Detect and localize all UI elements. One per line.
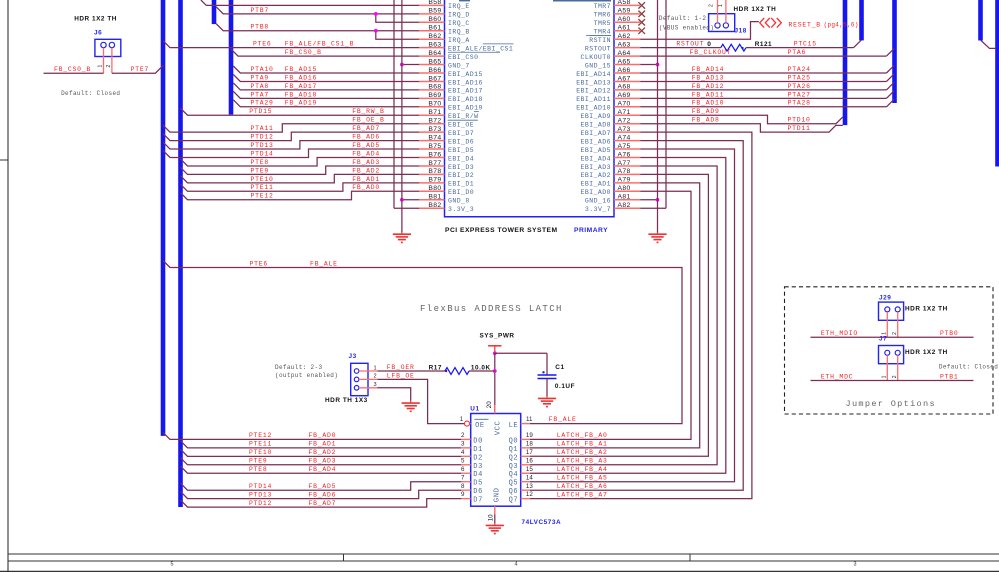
wire LATCH_FB_A4 from U1 Q4 up to pin A76	[530, 158, 726, 474]
svg-text:A63: A63	[618, 41, 631, 48]
svg-text:EBI_D0: EBI_D0	[448, 189, 474, 196]
svg-text:A70: A70	[618, 101, 631, 108]
svg-text:1: 1	[882, 332, 888, 335]
label RESET_B (pg4,5,6)	[789, 22, 859, 29]
svg-text:20: 20	[486, 401, 493, 408]
svg-text:A58: A58	[618, 0, 631, 6]
svg-text:17: 17	[526, 449, 533, 456]
svg-text:EBI_AD7: EBI_AD7	[581, 130, 611, 137]
svg-text:0.1UF: 0.1UF	[555, 383, 575, 390]
wire LATCH_FB_A0 from U1 Q0 up to pin A80	[530, 191, 691, 439]
wire FB_AD1 (PTE11) from bus2 with step to pin B79	[181, 183, 420, 191]
ground vertical right (GND_15/GND_16)	[657, 0, 659, 232]
svg-text:PTA29: PTA29	[251, 100, 274, 107]
svg-text:PTB0: PTB0	[940, 330, 959, 337]
svg-text:11: 11	[526, 416, 533, 423]
svg-text:EBI_AD3: EBI_AD3	[581, 164, 611, 171]
svg-text:A82: A82	[618, 202, 631, 209]
svg-text:FB_AD15: FB_AD15	[285, 66, 317, 73]
wire FB_AD9 pin A71 jog down to PTD10 into bus1	[640, 115, 843, 123]
svg-text:PTA24: PTA24	[788, 66, 811, 73]
svg-text:FB_AD17: FB_AD17	[285, 83, 317, 90]
overbar RSTIN pin A62 and underline TMR4	[586, 35, 611, 37]
svg-text:PTD13: PTD13	[249, 491, 272, 498]
svg-text:A76: A76	[618, 151, 631, 158]
connector pin stubs and pin numbers B58-B82 (left)	[419, 0, 444, 209]
junction node R121 right lead	[741, 47, 743, 49]
wire FB_AD5 (PTD14) from bus1 with step to pin B75	[163, 149, 419, 157]
junction node GND_8/B81	[400, 198, 404, 202]
svg-text:EBI_AD2: EBI_AD2	[581, 172, 611, 179]
svg-text:TMR4: TMR4	[594, 29, 611, 36]
svg-text:GND_7: GND_7	[448, 62, 470, 69]
wire RSTIN from pin A62 to off-page RESET_B	[640, 22, 759, 40]
svg-text:B66: B66	[428, 67, 441, 74]
svg-text:B78: B78	[428, 168, 441, 175]
no-connect X on pin A60	[638, 19, 645, 25]
svg-text:Default: Closed: Default: Closed	[939, 363, 998, 370]
svg-text:A68: A68	[618, 84, 631, 91]
svg-text:Default: Closed: Default: Closed	[61, 90, 120, 97]
label Default: 2-3 (output enabled)	[275, 364, 338, 379]
wire FB_RW_B (PTD15) from bus2 to pin B71	[181, 108, 420, 115]
svg-text:EBI_AD4: EBI_AD4	[581, 155, 611, 162]
svg-text:R17: R17	[429, 365, 442, 372]
svg-text:D6: D6	[473, 488, 483, 496]
U1 D0-D7 input pins 2-9 stubs and names	[461, 432, 483, 505]
svg-text:Jumper Options: Jumper Options	[846, 399, 936, 409]
wire FB_AD14 pin A66 to PTA24 into bus3	[640, 65, 894, 73]
svg-text:FB_AD5: FB_AD5	[309, 483, 337, 490]
ground symbol below U1	[494, 523, 496, 525]
wire FB_AD19 from bus4 to pin B70	[233, 100, 419, 107]
svg-text:B68: B68	[428, 84, 441, 91]
svg-text:PTD12: PTD12	[249, 500, 272, 507]
bus left 4	[229, 0, 234, 115]
svg-text:Default: 2-3: Default: 2-3	[275, 364, 322, 371]
svg-text:Q6: Q6	[509, 488, 519, 496]
svg-text:2: 2	[892, 332, 898, 335]
svg-text:FB_AD1: FB_AD1	[309, 441, 337, 448]
svg-text:EBI_D3: EBI_D3	[448, 164, 474, 171]
wire SYS_PWR down to R17 node and U1 VCC pin 20	[494, 353, 496, 413]
svg-text:5: 5	[171, 562, 174, 568]
svg-text:A65: A65	[618, 58, 631, 65]
svg-text:B79: B79	[428, 177, 441, 184]
svg-text:9: 9	[461, 491, 465, 498]
junction dot R17 left lead	[445, 370, 447, 372]
svg-text:CLKOUT0: CLKOUT0	[581, 54, 611, 61]
svg-text:EBI_D6: EBI_D6	[448, 138, 474, 145]
svg-text:OE: OE	[475, 422, 485, 430]
svg-text:FB_ALE: FB_ALE	[310, 260, 338, 267]
svg-text:PCI EXPRESS TOWER SYSTEM: PCI EXPRESS TOWER SYSTEM	[445, 227, 558, 234]
svg-text:J7: J7	[879, 336, 887, 343]
svg-text:FB_AD10: FB_AD10	[692, 100, 724, 107]
wire FB_AD6 (PTD13) from bus1 with step to pin B74	[163, 141, 419, 149]
wire IRQ_E from top edge to pin B58	[201, 0, 419, 5]
svg-text:LE: LE	[509, 422, 519, 430]
svg-text:PTA8: PTA8	[251, 83, 270, 90]
overbar EBI_CS1 part of pin B63 and EBI_R/W, EBI_OE bars	[448, 44, 514, 120]
svg-text:PTE8: PTE8	[251, 159, 270, 166]
svg-text:EBI_AD1: EBI_AD1	[581, 181, 611, 188]
svg-text:EBI_AD8: EBI_AD8	[581, 122, 611, 129]
svg-text:B65: B65	[428, 58, 441, 65]
wire ETH_MDC to J7 pin1 and PTB1 from J7 pin2	[811, 380, 974, 382]
svg-text:5: 5	[461, 457, 465, 464]
label RSTOUT0	[676, 41, 711, 48]
svg-text:6: 6	[461, 466, 465, 473]
svg-text:B73: B73	[428, 126, 441, 133]
svg-text:13: 13	[526, 483, 533, 490]
svg-text:Q4: Q4	[509, 471, 519, 479]
connector title text	[445, 227, 608, 234]
svg-text:B62: B62	[428, 33, 441, 40]
svg-text:LATCH_FB_A3: LATCH_FB_A3	[557, 458, 608, 465]
svg-text:FB_AD6: FB_AD6	[352, 134, 380, 141]
svg-text:EBI_AD11: EBI_AD11	[576, 96, 611, 103]
svg-text:PTE12: PTE12	[249, 432, 272, 439]
svg-text:R121: R121	[755, 41, 772, 48]
svg-text:HDR TH 1X3: HDR TH 1X3	[325, 397, 368, 404]
svg-text:A78: A78	[618, 168, 631, 175]
svg-text:B70: B70	[428, 101, 441, 108]
junction node PTB7/B59	[374, 12, 378, 16]
svg-text:B59: B59	[428, 8, 441, 15]
svg-text:FB_AD8: FB_AD8	[692, 117, 720, 124]
svg-text:EBI_CS0: EBI_CS0	[448, 54, 478, 61]
wire FB_AD17 from bus4 to pin B68	[233, 83, 419, 90]
wire FB_AD4 from bus2 to U1 D4	[181, 466, 462, 473]
svg-text:10.0K: 10.0K	[471, 365, 491, 372]
no-connect X on pin A61	[638, 28, 645, 34]
wire LATCH_FB_A1 from U1 Q1 up to pin A79	[530, 183, 700, 448]
svg-text:EBI_OE: EBI_OE	[448, 122, 474, 129]
svg-text:EBI_AD6: EBI_AD6	[581, 138, 611, 145]
svg-text:RSTIN: RSTIN	[589, 37, 611, 44]
no-connect X on pin A58	[638, 2, 645, 8]
U1 pin 1 OE with inversion bubble	[460, 416, 471, 426]
wire FB_AD10 pin A70 to PTA28 into bus3	[640, 99, 894, 107]
svg-text:EBI_AD18: EBI_AD18	[448, 96, 483, 103]
svg-text:ETH_MDC: ETH_MDC	[821, 373, 853, 380]
wire R17 to SYS_PWR node	[469, 370, 495, 372]
svg-text:FB_AD12: FB_AD12	[692, 83, 724, 90]
svg-text:IRQ_D: IRQ_D	[448, 12, 470, 19]
svg-text:IRQ_A: IRQ_A	[448, 37, 470, 44]
connector PCI EXPRESS TOWER SYSTEM (PRIMARY) body	[445, 0, 615, 217]
svg-text:A73: A73	[618, 126, 631, 133]
svg-text:PTE7: PTE7	[131, 66, 150, 73]
svg-text:J29: J29	[879, 295, 891, 302]
svg-text:B80: B80	[428, 185, 441, 192]
svg-text:PTE10: PTE10	[249, 449, 272, 456]
bus right 4	[978, 0, 983, 41]
junction node R17/VCC	[493, 369, 497, 373]
svg-text:FB_CLKOUT: FB_CLKOUT	[690, 49, 732, 56]
svg-text:FB_AD5: FB_AD5	[352, 142, 380, 149]
svg-text:PTA27: PTA27	[788, 91, 811, 98]
jumper J29 HDR 1X2 TH	[879, 302, 904, 337]
svg-text:1: 1	[374, 366, 377, 372]
svg-text:EBI_D5: EBI_D5	[448, 147, 474, 154]
svg-text:A75: A75	[618, 143, 631, 150]
wire FB_AD2 (PTE10) from bus2 with step to pin B78	[181, 174, 420, 182]
svg-text:FB_AD18: FB_AD18	[285, 91, 317, 98]
svg-text:1: 1	[718, 4, 724, 7]
capacitor C1 0.1UF	[538, 371, 557, 396]
wire 3.3V_7 pin A82 to power vertical	[640, 207, 666, 209]
svg-text:FB_AD0: FB_AD0	[352, 184, 380, 191]
wire FB_AD8 pin A72 jog down to PTD11 into bus1 end	[640, 124, 843, 132]
svg-text:FB_AD3: FB_AD3	[352, 159, 380, 166]
wire FB_AD11 pin A69 to PTA27 into bus3	[640, 91, 894, 99]
svg-text:HDR 1X2 TH: HDR 1X2 TH	[734, 6, 777, 13]
svg-text:FB_AD13: FB_AD13	[692, 74, 724, 81]
wire PTE7 from J6 pin 2 to bus1	[112, 65, 164, 73]
svg-text:FB_CS0_B: FB_CS0_B	[54, 66, 91, 73]
ground symbol below connector right	[657, 232, 659, 234]
connector pin names left column	[448, 3, 513, 213]
svg-text:PTB1: PTB1	[940, 373, 959, 380]
svg-text:FB_AD1: FB_AD1	[352, 176, 380, 183]
svg-text:EBI_D7: EBI_D7	[448, 130, 474, 137]
wire LFB_OE J3 pin2 to U1 OE pin1	[378, 379, 465, 423]
svg-text:A80: A80	[618, 185, 631, 192]
svg-text:Default: 1-2: Default: 1-2	[659, 15, 706, 22]
svg-text:D1: D1	[473, 446, 483, 454]
svg-text:PTE6: PTE6	[250, 260, 269, 267]
junction node PTB8/B61	[374, 29, 378, 33]
U1 OE pin name with overbar	[474, 419, 488, 430]
svg-text:J6: J6	[94, 30, 102, 37]
svg-text:EBI_AD9: EBI_AD9	[581, 113, 611, 120]
svg-text:FB_OER: FB_OER	[387, 364, 415, 371]
svg-text:PTE9: PTE9	[249, 458, 268, 465]
svg-text:GND_16: GND_16	[585, 198, 611, 205]
off-page connector symbol RESET_B (double chevron)	[760, 18, 782, 28]
svg-text:3: 3	[461, 440, 465, 447]
svg-text:PTE8: PTE8	[249, 466, 268, 473]
svg-text:B61: B61	[428, 25, 441, 32]
jumper J6 HDR 1X2 TH	[95, 39, 121, 73]
svg-text:TMR7: TMR7	[594, 3, 611, 10]
wire RSTOUT0 pin A63 through resistor R121 to PTC15 into bus2	[640, 40, 861, 48]
wire FB_AD3 from bus2 to U1 D3	[181, 458, 462, 465]
svg-text:HDR 1X2 TH: HDR 1X2 TH	[905, 306, 948, 313]
svg-text:16: 16	[526, 457, 533, 464]
svg-text:(pg4,5,6): (pg4,5,6)	[824, 22, 859, 29]
svg-text:HDR 1X2 TH: HDR 1X2 TH	[905, 349, 948, 356]
svg-text:PRIMARY: PRIMARY	[574, 227, 608, 234]
svg-text:PTC15: PTC15	[794, 41, 817, 48]
wire PTE6 / FB_ALE/FB_CS1_B from bus1 to pin B63	[163, 41, 419, 48]
svg-text:GND_8: GND_8	[448, 198, 470, 205]
svg-text:2: 2	[709, 4, 715, 7]
svg-text:PTD14: PTD14	[249, 483, 272, 490]
svg-text:PTA26: PTA26	[788, 83, 811, 90]
svg-text:EBI_AD13: EBI_AD13	[576, 79, 611, 86]
junction node SYS_PWR top	[493, 351, 497, 355]
power vertical 3.3V_7 (right)	[665, 0, 667, 208]
svg-text:LATCH_FB_A1: LATCH_FB_A1	[557, 441, 608, 448]
svg-text:PTE11: PTE11	[251, 184, 274, 191]
svg-text:EBI_AD17: EBI_AD17	[448, 88, 483, 95]
svg-text:FB_CS0_B: FB_CS0_B	[285, 49, 322, 56]
svg-text:A64: A64	[618, 50, 631, 57]
wire FB_AD0 (PTE12) from bus2 with step to pin B80	[181, 191, 420, 199]
wire GND_15 pin A65 to ground vertical	[640, 64, 657, 66]
svg-text:B67: B67	[428, 75, 441, 82]
svg-text:PTB7: PTB7	[251, 7, 270, 14]
svg-text:PTA28: PTA28	[788, 100, 811, 107]
wire FB_CS0_B from bus4 to pin B64	[231, 49, 419, 56]
svg-text:A61: A61	[618, 25, 631, 32]
svg-text:D0: D0	[473, 437, 483, 445]
svg-text:1: 1	[882, 375, 888, 378]
svg-text:A69: A69	[618, 92, 631, 99]
svg-text:SYS_PWR: SYS_PWR	[480, 332, 515, 339]
svg-text:1: 1	[460, 416, 464, 423]
svg-text:2: 2	[106, 65, 112, 68]
svg-text:FB_AD6: FB_AD6	[309, 491, 337, 498]
svg-text:B82: B82	[428, 202, 441, 209]
wire ETH_MDIO to J29 pin1 and PTB0 from J29 pin2	[811, 336, 974, 338]
bus right 3	[892, 0, 897, 103]
svg-text:FB_ALE: FB_ALE	[549, 416, 577, 423]
svg-text:FB_AD9: FB_AD9	[692, 108, 720, 115]
wire FB_AD0 from bus1 to U1 D0	[163, 432, 461, 439]
svg-text:B77: B77	[428, 160, 441, 167]
svg-text:EBI_R/W: EBI_R/W	[448, 113, 478, 120]
svg-text:D3: D3	[473, 463, 483, 471]
svg-text:Q0: Q0	[509, 437, 519, 445]
svg-text:3: 3	[854, 562, 857, 568]
svg-text:LATCH_FB_A6: LATCH_FB_A6	[557, 483, 608, 490]
wire FB_AD3 (PTE9) from bus2 with step to pin B77	[181, 166, 420, 174]
svg-text:LATCH_FB_A4: LATCH_FB_A4	[557, 466, 608, 473]
svg-text:19: 19	[526, 432, 533, 439]
svg-text:PTE10: PTE10	[251, 176, 274, 183]
bus right 2	[859, 0, 864, 40]
svg-text:ETH_MDIO: ETH_MDIO	[821, 330, 858, 337]
svg-text:PTE9: PTE9	[251, 167, 270, 174]
junction node GND_16/A81	[656, 198, 660, 202]
svg-text:B60: B60	[428, 16, 441, 23]
svg-text:PTD10: PTD10	[788, 117, 811, 124]
wire LATCH_FB_A3 from U1 Q3 up to pin A77	[530, 166, 717, 465]
svg-text:A81: A81	[618, 194, 631, 201]
svg-text:PTA10: PTA10	[251, 66, 274, 73]
svg-text:FB_AD11: FB_AD11	[692, 91, 724, 98]
svg-text:A66: A66	[618, 67, 631, 74]
svg-text:PTA9: PTA9	[251, 74, 270, 81]
latch U1 74LVC573A body	[471, 414, 521, 507]
svg-text:EBI_D2: EBI_D2	[448, 172, 474, 179]
wire FB_ALE from bus1 down to U1 pin 11 LE	[163, 261, 682, 424]
bus left 1	[161, 0, 166, 436]
svg-text:B81: B81	[428, 194, 441, 201]
svg-text:PTD15: PTD15	[249, 108, 272, 115]
svg-text:EBI_AD14: EBI_AD14	[576, 71, 611, 78]
wire 3.3V_3 pin B82 to power vertical	[394, 207, 419, 209]
svg-text:4: 4	[461, 449, 465, 456]
dashed box Jumper Options	[785, 287, 994, 414]
wire FB_OER J3 pin1 to R17	[378, 370, 446, 372]
svg-text:3.3V_7: 3.3V_7	[585, 206, 611, 213]
svg-text:PTA25: PTA25	[788, 74, 811, 81]
wire FB_AD15 from bus4 to pin B66	[233, 66, 419, 73]
svg-text:2: 2	[461, 432, 465, 439]
svg-text:A71: A71	[618, 109, 631, 116]
svg-text:8: 8	[461, 483, 465, 490]
ground symbol J3 pin3	[410, 401, 412, 403]
svg-text:EBI_AD10: EBI_AD10	[576, 105, 611, 112]
svg-text:PTB8: PTB8	[251, 24, 270, 31]
svg-text:IRQ_E: IRQ_E	[448, 3, 470, 10]
svg-text:FB_AD0: FB_AD0	[309, 432, 337, 439]
svg-text:LFB_OE: LFB_OE	[387, 373, 415, 380]
wire FB_AD6 from bus2 with step up to U1 D6	[181, 490, 462, 498]
svg-text:PTD13: PTD13	[251, 142, 274, 149]
svg-text:B72: B72	[428, 118, 441, 125]
cut-off top row pin name slivers	[459, 0, 611, 2]
svg-text:FB_AD4: FB_AD4	[309, 466, 337, 473]
wire GND_7 pin B65 to ground vertical	[402, 64, 419, 66]
svg-text:Q7: Q7	[509, 497, 519, 505]
svg-text:FB_AD3: FB_AD3	[309, 458, 337, 465]
svg-text:(output enabled): (output enabled)	[275, 372, 338, 379]
svg-text:A62: A62	[618, 33, 631, 40]
wire LATCH_FB_A2 from U1 Q2 up to pin A78	[530, 174, 708, 456]
wire FB_AD1 from bus2 to U1 D1	[181, 441, 462, 448]
wire J3 pin3 to ground	[378, 388, 411, 401]
svg-text:D5: D5	[473, 480, 483, 488]
svg-text:D2: D2	[473, 454, 483, 462]
svg-text:FB_AD7: FB_AD7	[309, 500, 337, 507]
svg-text:J3: J3	[349, 353, 357, 360]
svg-text:EBI_AD12: EBI_AD12	[576, 88, 611, 95]
wire FB_AD7 from bus2 with step up to U1 D7	[181, 499, 462, 508]
ground symbol below C1	[546, 396, 548, 398]
svg-text:HDR 1X2 TH: HDR 1X2 TH	[74, 15, 117, 22]
svg-text:PTD14: PTD14	[251, 150, 274, 157]
svg-text:EBI_AD15: EBI_AD15	[448, 71, 483, 78]
svg-text:18: 18	[526, 440, 533, 447]
wire FB_AD16 from bus4 to pin B67	[233, 74, 419, 81]
wire FB_AD4 (PTE8) from bus2 with step to pin B76	[181, 158, 420, 166]
jumper J18 HDR 1X2 TH	[709, 0, 735, 32]
svg-text:A67: A67	[618, 75, 631, 82]
svg-text:B75: B75	[428, 143, 441, 150]
svg-text:4: 4	[515, 562, 518, 568]
svg-text:LATCH_FB_A2: LATCH_FB_A2	[557, 449, 608, 456]
svg-text:B74: B74	[428, 134, 441, 141]
connector pin names right column	[576, 3, 611, 213]
wire PTB7 from bus3 to pin B59 with branch to B60	[216, 7, 419, 22]
svg-text:FB_AD4: FB_AD4	[352, 150, 380, 157]
U1 pin 11 LE	[509, 416, 533, 430]
svg-text:PTA7: PTA7	[251, 91, 270, 98]
svg-text:EBI_D4: EBI_D4	[448, 155, 474, 162]
svg-text:Q1: Q1	[509, 446, 519, 454]
label Default: 1-2 (VBUS enabled)	[659, 15, 714, 32]
resistor R17 10.0K	[445, 368, 469, 375]
svg-text:LATCH_FB_A0: LATCH_FB_A0	[557, 432, 608, 439]
svg-text:EBI_AD0: EBI_AD0	[581, 189, 611, 196]
svg-text:RESET_B: RESET_B	[789, 22, 821, 29]
